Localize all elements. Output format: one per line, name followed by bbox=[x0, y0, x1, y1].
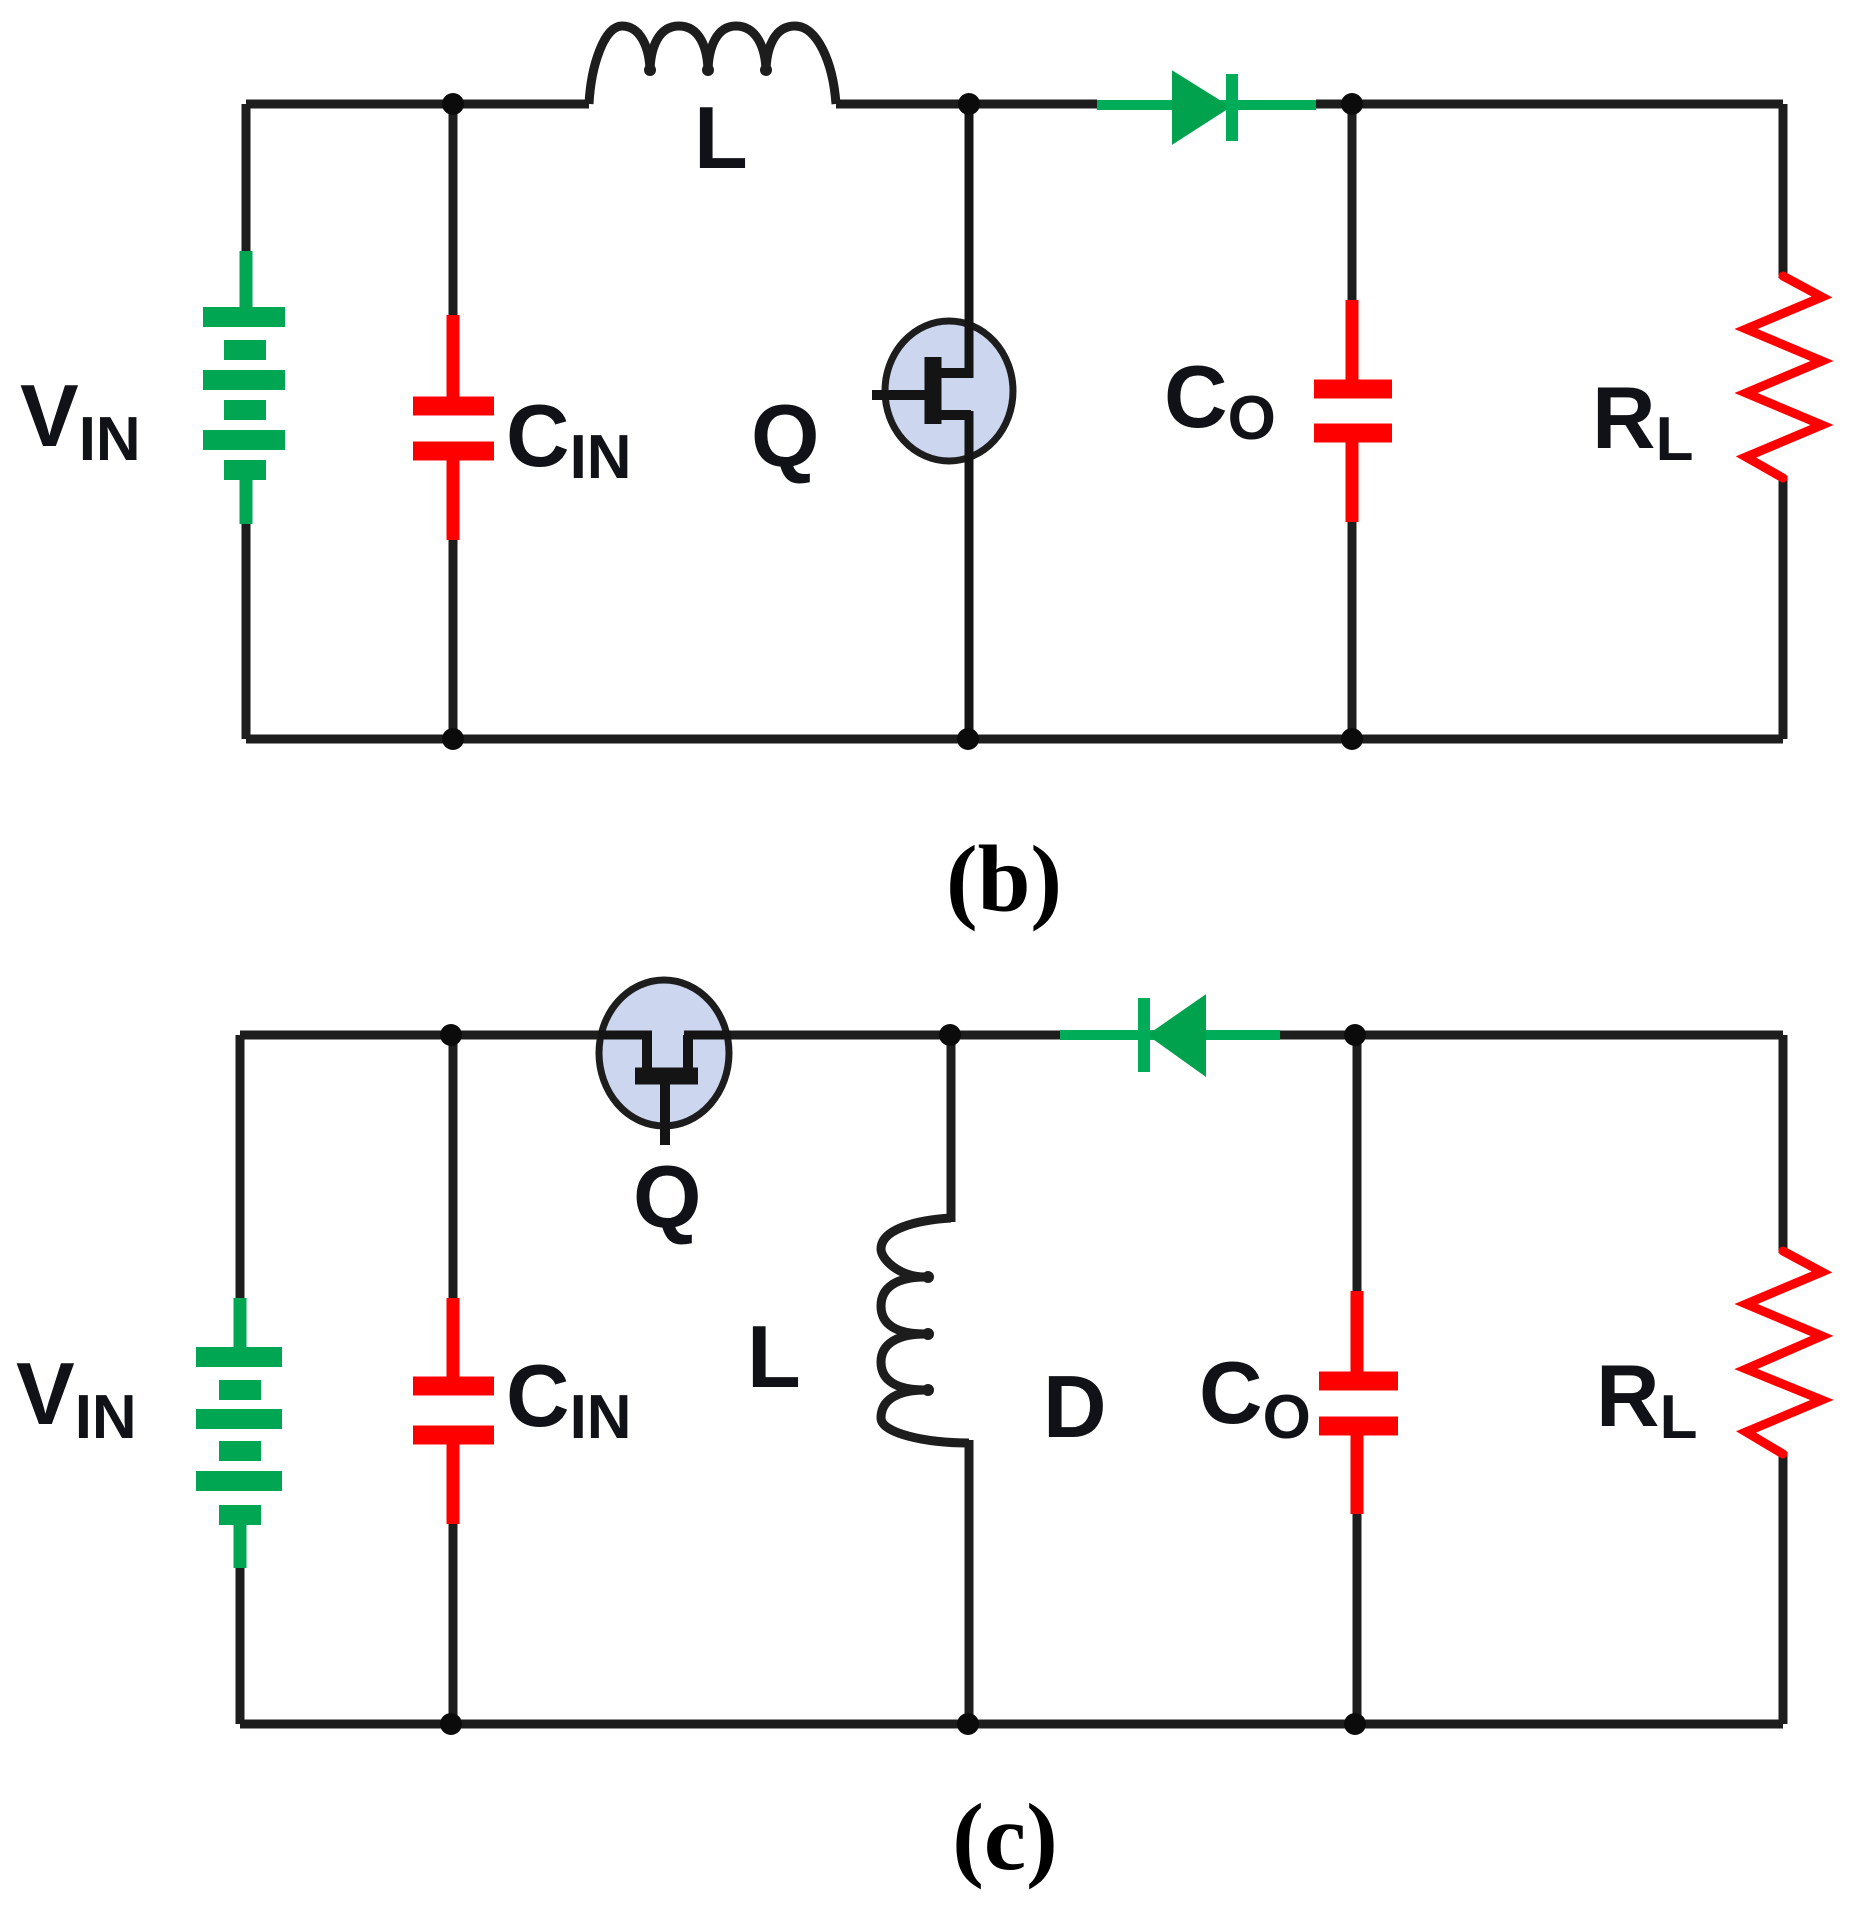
svg-text:(c): (c) bbox=[952, 1784, 1057, 1890]
svg-text:L: L bbox=[694, 88, 748, 187]
svg-text:(b): (b) bbox=[946, 826, 1062, 932]
svg-text:D: D bbox=[1043, 1357, 1107, 1456]
svg-text:L: L bbox=[747, 1307, 801, 1406]
svg-text:Q: Q bbox=[751, 386, 819, 485]
svg-text:Q: Q bbox=[633, 1147, 701, 1246]
